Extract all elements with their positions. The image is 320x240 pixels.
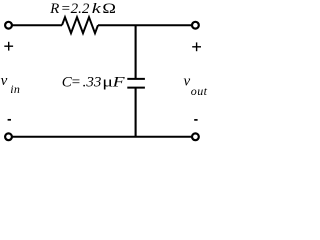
capacitor C1 top plate: [127, 78, 145, 80]
wire: top-left terminal to resistor: [12, 24, 62, 26]
wire: capacitor down to bottom node: [135, 88, 137, 137]
svg-text:=: =: [71, 75, 81, 91]
resistor R1 zigzag: [62, 17, 98, 33]
svg-text:in: in: [10, 82, 20, 96]
svg-text:k: k: [92, 0, 102, 17]
node label v_in: [1, 73, 21, 96]
polarity minus (output): [194, 119, 197, 121]
wire: top node down to capacitor: [135, 25, 137, 79]
svg-text:2.2: 2.2: [71, 1, 90, 17]
svg-text:F: F: [111, 74, 124, 90]
capacitor C1 bottom plate: [127, 87, 145, 89]
terminal: output top-right: [192, 22, 199, 29]
svg-text:μ: μ: [102, 74, 113, 90]
svg-text:out: out: [191, 84, 208, 98]
svg-text:.33: .33: [83, 75, 102, 91]
terminal: input top-left: [5, 22, 12, 29]
wire: bottom rail: [12, 136, 192, 138]
svg-text:=: =: [61, 1, 71, 17]
wire: resistor to top-right terminal: [98, 24, 192, 26]
svg-text:R: R: [49, 1, 59, 17]
svg-text:Ω: Ω: [102, 0, 116, 17]
polarity plus (input): [4, 42, 13, 51]
label C=.33uF: [62, 74, 125, 91]
terminal: input bottom-left: [5, 133, 12, 140]
svg-text:v: v: [1, 73, 8, 89]
svg-text:v: v: [184, 73, 191, 89]
node label v_out: [184, 73, 208, 98]
label R=2.2kOhm: [49, 0, 116, 17]
terminal: output bottom-right: [192, 133, 199, 140]
polarity minus (input): [8, 119, 11, 121]
polarity plus (output): [192, 42, 201, 51]
